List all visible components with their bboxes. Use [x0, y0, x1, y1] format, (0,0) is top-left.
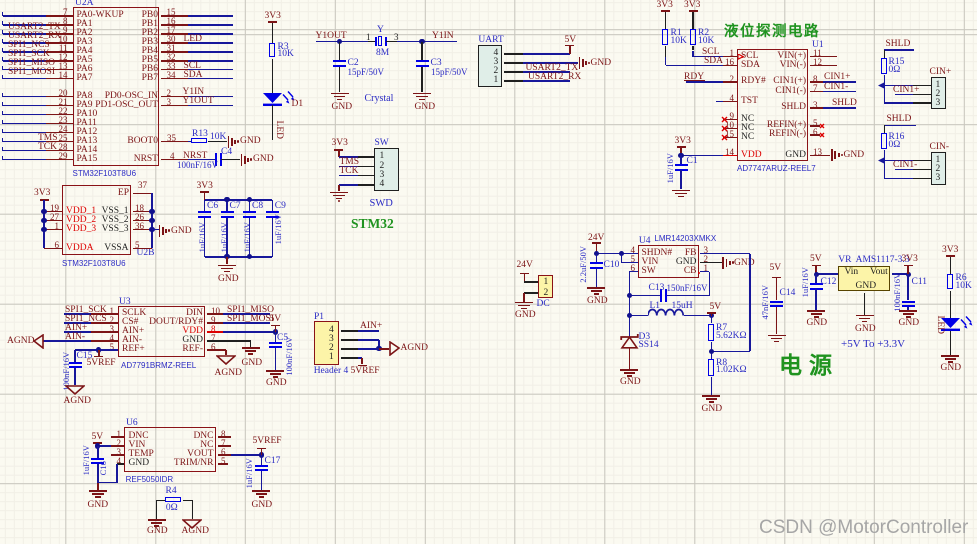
connector SW header (SWD) — [375, 139, 389, 149]
power 3V3 (SWD) — [332, 139, 348, 149]
wire — [188, 69, 234, 71]
net label USART2_RX — [8, 32, 61, 42]
net label Y1IN — [183, 88, 205, 98]
wire — [884, 85, 913, 87]
net label SHLD (lower) — [887, 115, 912, 125]
ground AGND (P1) — [389, 341, 400, 356]
pin 18 VSS_1 — [59, 207, 129, 217]
pin 1 — [494, 76, 499, 86]
pin 6 SW — [642, 267, 656, 277]
net label Y1IN — [432, 32, 454, 42]
resistor R2 10K — [690, 29, 696, 45]
junction — [224, 254, 229, 259]
power 3V3 (R2) — [689, 10, 698, 12]
power 3V3 (LED supply) — [268, 21, 277, 23]
pin 11 PA4 — [77, 47, 93, 57]
wire — [64, 322, 91, 324]
crystal Y 8M — [377, 26, 384, 36]
pin 11 VIN(+) — [736, 52, 806, 62]
wire SCL — [692, 46, 694, 50]
pin 3 TEMP (left) — [129, 450, 154, 460]
pin 14 VDD — [741, 151, 762, 161]
no-ERC marks REFIN — [819, 123, 825, 129]
pin 2 — [494, 67, 499, 77]
power 24V (DC) — [517, 261, 533, 271]
pin 2 — [380, 162, 385, 172]
pin 3 FB — [627, 249, 697, 259]
resistor R4 0Ω — [165, 497, 181, 502]
wire — [205, 199, 273, 201]
wire SDA — [665, 46, 667, 57]
ground GND (R8) — [702, 395, 720, 397]
label SWD — [370, 198, 393, 209]
pin 8 CIN1(+) — [736, 77, 806, 87]
wire REF+ — [75, 349, 118, 351]
pin 3 AIN+ — [122, 327, 144, 337]
power 5V (U3) — [275, 326, 277, 332]
ground AGND (R4) — [182, 519, 202, 529]
net label SHLD (upper) — [886, 40, 911, 50]
net label SCL — [184, 62, 201, 72]
wire — [316, 41, 369, 43]
LED D1 — [263, 91, 299, 115]
net label USART2_TX — [8, 23, 61, 33]
pin 4 GND (left) — [129, 459, 150, 469]
pin 2 PD0-OSC_IN — [88, 92, 158, 102]
pin 35 BOOT0 — [88, 137, 158, 147]
junction — [337, 39, 342, 44]
pin 4 AIN- — [122, 336, 142, 346]
wire — [621, 254, 623, 263]
junction — [709, 313, 714, 318]
pin 7 PA0-WKUP — [77, 11, 124, 21]
wire — [339, 175, 358, 177]
power 3V3 (LDO out) — [904, 265, 913, 267]
pin 1 SCL — [741, 52, 758, 62]
wire — [188, 42, 234, 44]
net label TCK — [38, 143, 57, 153]
wire CB — [700, 271, 709, 273]
pin lead — [386, 41, 397, 43]
pin 19 VDD_1 — [66, 207, 96, 217]
ground GND (U3 pin7) — [242, 347, 260, 349]
pin 8 VDD — [133, 327, 203, 337]
pin lead — [368, 41, 375, 43]
pin 6 VDDA — [66, 244, 93, 254]
pin 36 VSS_3 — [59, 225, 129, 235]
junction — [906, 272, 911, 277]
capacitor C6 1uF/16V — [204, 200, 206, 211]
net label NRST — [183, 152, 207, 162]
pin 10 PA3 — [77, 38, 93, 48]
junction — [259, 452, 264, 457]
pin 9 NC — [741, 115, 754, 125]
wire — [3, 105, 47, 107]
capacitor C5 100nF/16V — [275, 332, 277, 342]
pin 2 — [936, 165, 941, 175]
connector CIN- header — [930, 143, 950, 153]
wire — [884, 49, 914, 51]
power 3V3 (R6) — [946, 255, 955, 257]
wire SHLD — [823, 107, 856, 109]
wire — [188, 78, 234, 80]
wire — [711, 377, 713, 395]
resistor R16 0Ω — [884, 125, 886, 133]
wire REF- — [223, 349, 226, 351]
pin 8 DNC (right) — [144, 432, 214, 442]
arrow junction — [878, 82, 885, 89]
pin 9 PA2 — [77, 29, 93, 39]
pin 3 — [380, 171, 385, 181]
pin 26 VSS_2 — [59, 216, 129, 226]
ground GND (C1) — [672, 190, 690, 192]
pin 4 TST — [741, 97, 758, 107]
wire — [3, 132, 47, 134]
wire — [358, 357, 362, 359]
junction — [678, 153, 683, 158]
net label AIN+ — [65, 324, 87, 334]
wire — [629, 315, 648, 317]
arrow junction — [878, 157, 885, 164]
net label SDA — [184, 71, 203, 81]
capacitor C8 1uF/16V — [249, 200, 251, 211]
watermark CSDN @MotorController — [759, 518, 968, 538]
pin 29 PA15 — [77, 155, 98, 165]
capacitor C12 1uF/16V — [815, 274, 817, 283]
wire — [151, 193, 153, 211]
power 24V (buck input) — [588, 234, 604, 244]
pin 20 PA8 — [77, 92, 93, 102]
capacitor C16 1uF/16V — [97, 446, 99, 458]
net label SPI1_MOSI — [227, 315, 274, 325]
wire — [151, 212, 153, 249]
ground GND (C17) — [252, 490, 270, 492]
wire — [272, 59, 274, 93]
wire — [711, 342, 713, 359]
wire — [152, 229, 159, 231]
power 5VREF (P1, down) — [358, 365, 367, 367]
wire — [523, 62, 578, 64]
ground GND (C5) — [266, 370, 284, 372]
junction — [709, 349, 714, 354]
pin 31 PB4 — [88, 47, 158, 57]
wire — [358, 339, 379, 341]
wire — [3, 15, 47, 17]
op-amp U2A STM32F103T8U6 main MCU part — [73, 7, 160, 166]
pin 4 NRST — [88, 155, 158, 165]
wire — [339, 184, 358, 186]
ground AGND (REF-) — [216, 355, 236, 365]
pin 7 GND — [133, 336, 203, 346]
power 5V (C14) — [770, 264, 782, 274]
wire — [188, 15, 234, 17]
wire — [221, 159, 240, 161]
power 5V (LDO in) — [812, 265, 821, 267]
pin 8 PA1 — [77, 20, 93, 30]
net label TMS — [340, 158, 360, 168]
wire — [3, 96, 47, 98]
pin 27 VDD_2 — [66, 216, 96, 226]
pin 9 DOUT/RDY# — [133, 318, 203, 328]
wire — [272, 23, 274, 43]
wire — [3, 42, 47, 44]
wire — [223, 322, 270, 324]
junction — [149, 209, 154, 214]
wire — [64, 331, 91, 333]
net label CIN1+ — [824, 73, 850, 83]
junction — [376, 346, 381, 351]
ground GND (LED) — [941, 355, 959, 357]
resistor R15 0Ω — [884, 50, 886, 58]
power 3V3 (R1) — [661, 10, 670, 12]
net label SHLD — [832, 99, 857, 109]
wire — [629, 295, 659, 297]
pin 5 VIN — [642, 258, 659, 268]
wire — [188, 159, 216, 161]
junction — [594, 251, 599, 256]
net label AIN- — [65, 333, 85, 343]
junction — [224, 197, 229, 202]
wire — [205, 256, 273, 258]
pin 34 PB7 — [88, 74, 158, 84]
pin 6 REFIN(-) — [736, 130, 806, 140]
wire — [188, 60, 234, 62]
pin 5 VSSA — [59, 244, 129, 254]
power 5V (U6) — [93, 442, 102, 444]
pin 30 PB3 — [88, 38, 158, 48]
capacitor C17 1uF/16V — [261, 455, 263, 465]
capacitor C10 2.2uF/50V — [596, 254, 598, 263]
comment STM32 — [351, 217, 394, 231]
pin 4 — [380, 180, 385, 190]
ground GND (BOOT0 pulldown) — [228, 136, 230, 148]
pin 2 VIN (left) — [129, 441, 146, 451]
wire — [3, 69, 47, 71]
pin 13 GND — [736, 151, 806, 161]
wire — [339, 156, 358, 158]
comment 电源 — [779, 354, 839, 378]
pin 1 — [936, 156, 941, 166]
capacitor C2 15pF/50V — [339, 42, 341, 60]
net label RDY — [684, 73, 704, 83]
net label SDA — [704, 57, 723, 67]
wire — [816, 273, 838, 275]
pin 10 NC — [741, 124, 754, 134]
net label CIN1+ — [893, 86, 919, 96]
pin 16 PB1 — [88, 20, 158, 30]
net label CIN1- — [824, 83, 848, 93]
comment 液位探测电路 — [724, 25, 820, 40]
op-amp U6 REF5050IDR — [124, 427, 216, 472]
net label USART2_TX — [526, 64, 579, 74]
pin 32 PB5 — [88, 56, 158, 66]
pin 2 — [544, 289, 549, 299]
pin 37 EP — [59, 189, 129, 199]
wire — [188, 51, 234, 53]
pin 13 PA6 — [77, 65, 93, 75]
ground AGND (left) — [33, 334, 44, 349]
connector P1 Header 4 — [314, 313, 324, 323]
pin 23 PA11 — [77, 119, 97, 129]
net label Y1OUT — [316, 32, 347, 42]
wire — [272, 105, 274, 140]
wire RDY — [686, 81, 724, 83]
pin 6 REF- — [133, 345, 203, 355]
ground GND (NRST cap) — [241, 154, 243, 166]
resistor R13 — [191, 138, 207, 143]
ground GND (U6) — [97, 483, 99, 490]
wire — [3, 159, 47, 161]
pin 4 SHDN# — [642, 249, 673, 259]
capacitor C1 1uF/16V — [680, 155, 682, 164]
wire CIN1+ — [823, 81, 856, 83]
wire — [884, 102, 913, 104]
comment Crystal — [365, 94, 394, 105]
wire — [884, 150, 886, 178]
ground GND (UART) — [579, 57, 581, 69]
pin 2 GND — [627, 258, 697, 268]
net label SPI1_SCK — [8, 50, 50, 60]
ground GND (R4) — [148, 519, 166, 521]
ground GND (U2B) — [159, 225, 161, 237]
pin stubs right U3 — [207, 313, 223, 315]
pin 7 NC (right) — [144, 441, 214, 451]
pin 10 DIN — [133, 309, 203, 319]
connector CIN+ header — [930, 68, 952, 78]
pin 3 — [936, 174, 941, 184]
resistor R1 10K — [662, 29, 668, 45]
net label LED (rotated) — [934, 285, 944, 365]
ground GND (U1 pin13) — [831, 149, 833, 161]
wire — [339, 166, 358, 168]
capacitor C11 100nF/16V — [907, 274, 909, 300]
pin 5 TRIM/NR (right) — [144, 459, 214, 469]
resistor R8 1.02KΩ — [708, 359, 714, 376]
resistor R3 10K — [269, 43, 275, 58]
wire — [3, 60, 47, 62]
net label TMS — [38, 134, 58, 144]
wire CIN1+ to header — [895, 94, 913, 96]
wire — [884, 160, 913, 162]
wire — [523, 80, 570, 82]
red arrow SCL pin — [738, 54, 745, 60]
power 3V3 (decoupling rail) — [200, 191, 209, 193]
pin 15 NC — [741, 133, 754, 143]
resistor R7 5.62KΩ — [711, 316, 713, 324]
wire — [208, 141, 227, 143]
wire — [188, 33, 234, 35]
pin stubs right U1 — [810, 56, 837, 58]
ground AGND (C15) — [65, 385, 85, 395]
wire — [358, 348, 379, 350]
net label LED (rotated) — [273, 90, 283, 170]
ground (C14) — [768, 335, 786, 337]
wire — [3, 33, 47, 35]
power 5V (buck out) — [711, 314, 713, 316]
wire — [3, 24, 47, 26]
net label USART2_RX — [528, 73, 581, 83]
pin 1 — [936, 81, 941, 91]
ground GND (C2) — [331, 93, 349, 95]
op-amp VR AMS1117-3.3 — [838, 266, 890, 291]
ground GND (DC) — [523, 293, 525, 302]
junction — [41, 209, 46, 214]
pin 1 VDD_3 — [66, 225, 96, 235]
wire — [523, 53, 570, 55]
wire — [3, 123, 47, 125]
junction — [814, 272, 819, 277]
pin 4 — [494, 49, 499, 59]
op-amp U2B STM32F103T8U6 power part — [62, 185, 131, 256]
pin 3 PD1-OSC_OUT — [88, 101, 158, 111]
power 3V3 (U2B) — [40, 199, 49, 201]
pin 12 VIN(-) — [736, 61, 806, 71]
wire — [183, 500, 193, 502]
wire — [884, 178, 913, 180]
pin 24 PA12 — [77, 128, 98, 138]
net label LED — [184, 35, 202, 45]
pin 1 — [544, 278, 549, 288]
ground GND (C3) — [413, 93, 431, 95]
pin 22 PA10 — [77, 110, 98, 120]
wire — [188, 141, 192, 143]
capacitor C3 15pF/50V — [421, 42, 423, 60]
pin 25 PA13 — [77, 137, 98, 147]
wire — [884, 125, 916, 127]
wire — [98, 445, 111, 447]
ground GND (LDO) — [864, 293, 866, 315]
pin 1 — [329, 353, 334, 363]
wire — [629, 348, 631, 369]
pin 3 — [494, 58, 499, 68]
pin 21 PA9 — [77, 101, 93, 111]
red dot CB — [698, 272, 701, 275]
diode D3 SS14 — [620, 333, 639, 349]
wire CIN1- to header — [895, 169, 913, 171]
LED (3V3 indicator) — [941, 316, 977, 340]
wire CIN1- — [823, 91, 856, 93]
ground GND (U4 pin2) — [700, 262, 722, 264]
pin 16 SDA — [741, 61, 760, 71]
pin 2 RDY# — [741, 77, 766, 87]
net label Y1OUT — [183, 97, 214, 107]
wire — [3, 78, 47, 80]
net label SPI1_SCK — [65, 306, 107, 316]
op-amp U3 AD7791BRMZ-REEL — [118, 306, 205, 357]
wire — [950, 331, 952, 355]
wire — [397, 41, 457, 43]
wire — [223, 313, 270, 315]
capacitor C14 47nF/16V — [776, 278, 778, 300]
wire — [681, 155, 723, 157]
pin 15 PB0 — [88, 11, 158, 21]
wire FB — [700, 253, 750, 255]
net label CIN1- — [893, 161, 917, 171]
pin 2 — [329, 344, 334, 354]
wire — [64, 313, 91, 315]
net label SPI1_NCS — [8, 41, 50, 51]
comment +5V To +3.3V — [841, 339, 905, 351]
net label SPI1_MISO — [227, 306, 274, 316]
ground (SWD) — [338, 185, 340, 192]
wire — [157, 500, 166, 502]
resistor R6 10K — [947, 274, 953, 289]
wire — [3, 114, 47, 116]
junction — [273, 329, 278, 334]
net label SPI1_MISO — [8, 59, 55, 69]
wire TST — [716, 101, 723, 103]
power 5VREF (down) — [98, 350, 100, 356]
